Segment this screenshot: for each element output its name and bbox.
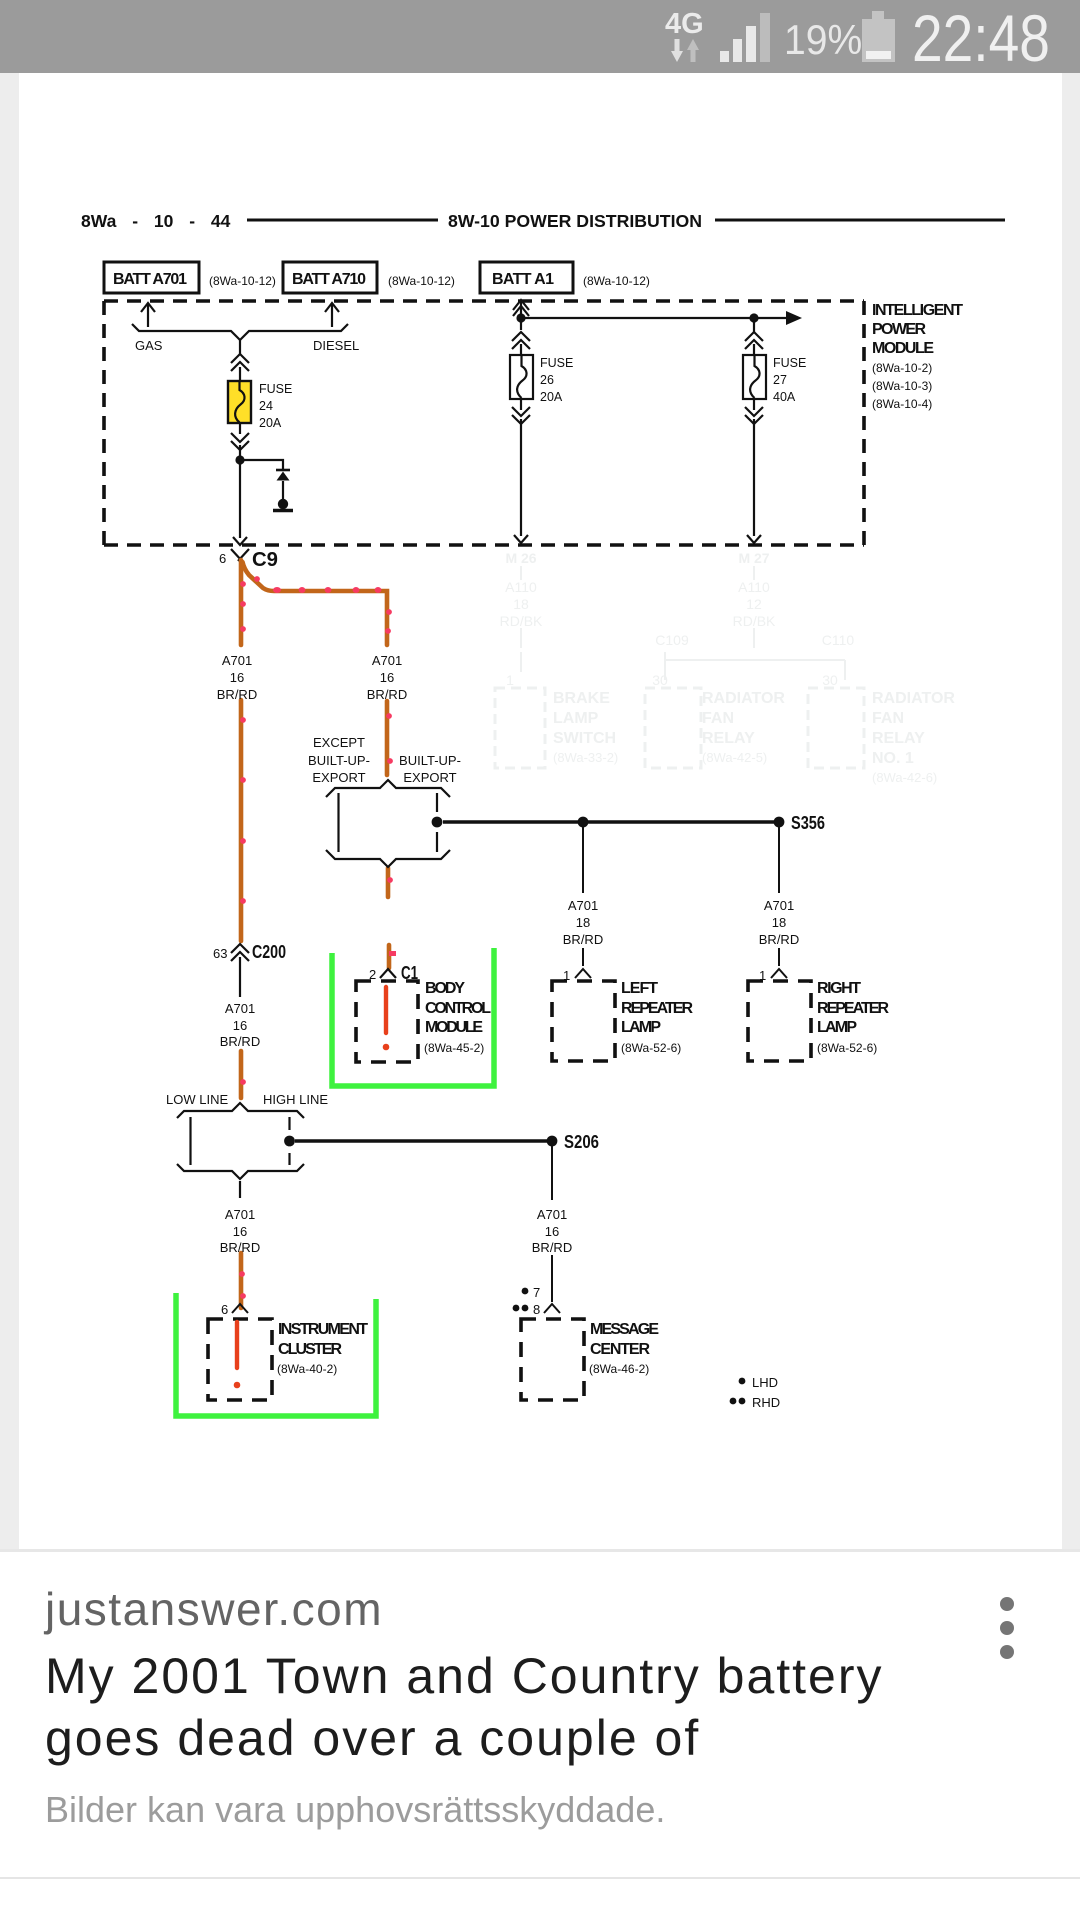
svg-text:POWER: POWER [872,321,926,338]
svg-text:EXPORT: EXPORT [312,770,365,785]
svg-text:BUILT-UP-: BUILT-UP- [308,753,370,768]
svg-text:63: 63 [213,946,227,961]
svg-text:A701: A701 [222,653,252,668]
svg-text:20A: 20A [259,416,282,430]
svg-text:BR/RD: BR/RD [532,1240,572,1255]
svg-text:(8Wa-10-4): (8Wa-10-4) [872,397,932,411]
svg-text:BATT A701: BATT A701 [113,271,187,288]
svg-text:LEFT: LEFT [621,980,658,997]
svg-text:A110: A110 [738,579,770,595]
svg-text:M 26: M 26 [505,550,536,566]
svg-text:6: 6 [221,1302,228,1317]
svg-text:M 27: M 27 [738,550,769,566]
svg-text:RIGHT: RIGHT [817,980,861,997]
svg-text:LHD: LHD [752,1375,778,1390]
svg-text:LAMP: LAMP [817,1019,857,1036]
svg-text:LOW LINE: LOW LINE [166,1092,228,1107]
svg-text:LAMP: LAMP [621,1019,661,1036]
svg-text:FAN: FAN [872,710,904,727]
svg-text:26: 26 [540,373,554,387]
svg-text:RELAY: RELAY [872,730,925,747]
svg-text:REPEATER: REPEATER [621,1000,693,1017]
svg-text:BUILT-UP-: BUILT-UP- [399,753,461,768]
svg-text:A701: A701 [225,1207,255,1222]
svg-text:BR/RD: BR/RD [220,1034,260,1049]
svg-text:S206: S206 [564,1132,599,1152]
svg-text:GAS: GAS [135,338,163,353]
svg-text:8: 8 [533,1302,540,1317]
svg-text:BATT A1: BATT A1 [492,271,554,288]
svg-text:FUSE: FUSE [259,382,292,396]
svg-text:INTELLIGENT: INTELLIGENT [872,302,963,319]
svg-text:16: 16 [230,670,244,685]
svg-text:MODULE: MODULE [872,340,934,357]
svg-text:18: 18 [772,915,786,930]
svg-text:CONTROL: CONTROL [425,1000,491,1017]
svg-text:(8Wa-45-2): (8Wa-45-2) [424,1041,484,1055]
svg-text:8Wa - 10 - 44: 8Wa - 10 - 44 [81,211,231,231]
svg-text:INSTRUMENT: INSTRUMENT [278,1321,368,1338]
svg-text:C200: C200 [252,942,286,962]
svg-text:S356: S356 [791,813,825,833]
svg-text:C110: C110 [822,632,855,648]
svg-text:RELAY: RELAY [702,730,755,747]
svg-text:RHD: RHD [752,1395,780,1410]
svg-text:(8Wa-42-5): (8Wa-42-5) [702,750,767,765]
svg-text:HIGH LINE: HIGH LINE [263,1092,328,1107]
svg-text:FUSE: FUSE [540,356,573,370]
svg-text:MESSAGE: MESSAGE [590,1321,659,1338]
svg-text:C9: C9 [252,549,278,571]
svg-text:BR/RD: BR/RD [759,932,799,947]
svg-text:RD/BK: RD/BK [733,613,776,629]
svg-text:FUSE: FUSE [773,356,806,370]
svg-text:16: 16 [233,1224,247,1239]
svg-text:(8Wa-46-2): (8Wa-46-2) [589,1362,649,1376]
svg-text:LAMP: LAMP [553,710,599,727]
svg-text:RADIATOR: RADIATOR [872,690,955,707]
svg-text:BODY: BODY [425,980,465,997]
svg-text:12: 12 [746,596,762,612]
svg-text:DIESEL: DIESEL [313,338,359,353]
svg-text:BR/RD: BR/RD [217,687,257,702]
svg-text:(8Wa-52-6): (8Wa-52-6) [621,1041,681,1055]
svg-text:NO. 1: NO. 1 [872,750,914,767]
svg-text:C109: C109 [655,632,689,648]
svg-text:A701: A701 [764,898,794,913]
svg-text:CLUSTER: CLUSTER [278,1341,342,1358]
svg-text:A110: A110 [505,579,537,595]
svg-text:A701: A701 [568,898,598,913]
svg-text:A701: A701 [225,1001,255,1016]
svg-text:BR/RD: BR/RD [563,932,603,947]
svg-text:16: 16 [233,1018,247,1033]
svg-text:1: 1 [506,672,514,688]
svg-text:(8Wa-10-3): (8Wa-10-3) [872,379,932,393]
svg-text:(8Wa-33-2): (8Wa-33-2) [553,750,618,765]
svg-text:(8Wa-52-6): (8Wa-52-6) [817,1041,877,1055]
svg-text:(8Wa-10-2): (8Wa-10-2) [872,361,932,375]
svg-text:FAN: FAN [702,710,734,727]
svg-text:A701: A701 [372,653,402,668]
svg-text:27: 27 [773,373,787,387]
svg-text:EXCEPT: EXCEPT [313,735,365,750]
svg-text:BR/RD: BR/RD [367,687,407,702]
svg-text:18: 18 [576,915,590,930]
svg-text:16: 16 [380,670,394,685]
svg-text:16: 16 [545,1224,559,1239]
svg-text:30: 30 [822,672,838,688]
svg-text:7: 7 [533,1285,540,1300]
svg-text:EXPORT: EXPORT [403,770,456,785]
svg-text:18: 18 [513,596,529,612]
svg-text:(8Wa-10-12): (8Wa-10-12) [388,274,455,288]
svg-text:MODULE: MODULE [425,1019,483,1036]
svg-text:6: 6 [219,551,226,566]
svg-text:(8Wa-40-2): (8Wa-40-2) [277,1362,337,1376]
svg-text:A701: A701 [537,1207,567,1222]
svg-text:RD/BK: RD/BK [500,613,543,629]
svg-text:40A: 40A [773,390,796,404]
svg-text:8W-10 POWER DISTRIBUTION: 8W-10 POWER DISTRIBUTION [448,211,702,231]
svg-text:(8Wa-42-6): (8Wa-42-6) [872,770,937,785]
svg-text:(8Wa-10-12): (8Wa-10-12) [583,274,650,288]
svg-text:24: 24 [259,399,273,413]
svg-text:RADIATOR: RADIATOR [702,690,785,707]
svg-text:20A: 20A [540,390,563,404]
svg-text:BATT A710: BATT A710 [292,271,366,288]
svg-text:REPEATER: REPEATER [817,1000,889,1017]
svg-text:CENTER: CENTER [590,1341,650,1358]
svg-text:BR/RD: BR/RD [220,1240,260,1255]
svg-text:SWITCH: SWITCH [553,730,616,747]
svg-text:(8Wa-10-12): (8Wa-10-12) [209,274,276,288]
svg-text:BRAKE: BRAKE [553,690,610,707]
